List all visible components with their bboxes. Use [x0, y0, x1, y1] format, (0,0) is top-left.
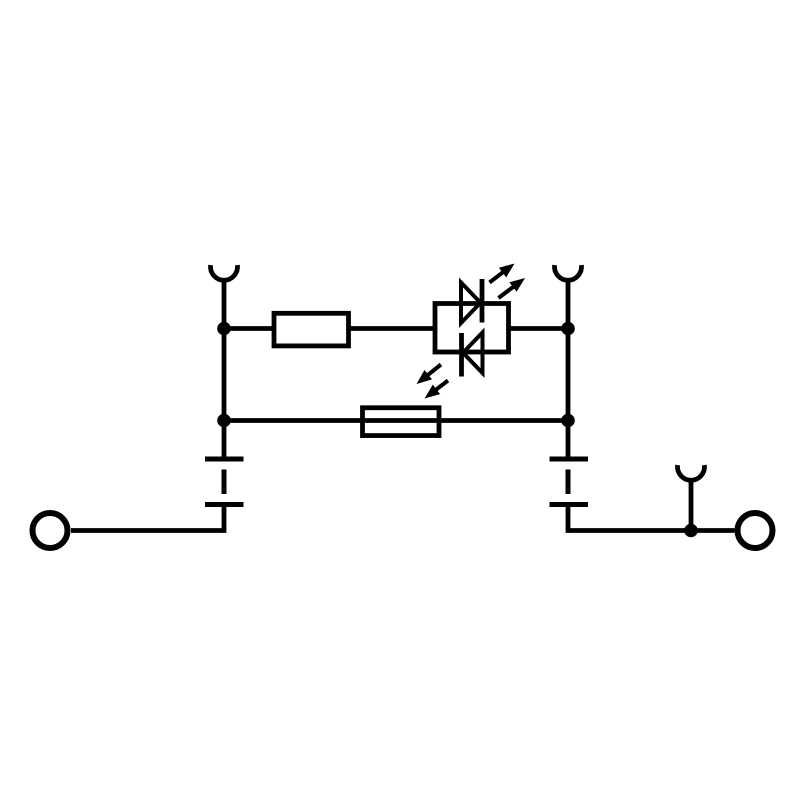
wire: S1 to left terminal [71, 505, 224, 531]
disconnect link S2 lower bar [550, 502, 589, 507]
wire: S2 to right terminal [568, 505, 735, 531]
test socket arc TP1 (top left) [211, 265, 238, 280]
test socket arc TP3 (lower right) [678, 465, 705, 480]
disconnect link S2 upper bar [550, 457, 589, 462]
disconnect link S1 upper bar [205, 457, 244, 462]
disconnect link S2 blade [566, 470, 571, 495]
wire: upper branch left segment [224, 326, 272, 331]
wire: TP3 stub [689, 479, 694, 531]
disconnect link S1 blade [222, 470, 227, 495]
emission arrow 4 (lower) [425, 381, 449, 399]
wire: LED box to right bus [509, 326, 569, 331]
junction node lower-right [561, 414, 575, 428]
test socket arc TP2 (top right) [555, 265, 582, 280]
junction node at TP3 [684, 524, 698, 538]
wire: left vertical bus [222, 279, 227, 459]
emission arrow 3 (lower) [417, 365, 442, 385]
wire: resistor to LED box [349, 326, 436, 331]
terminal circle X2 (right) [738, 513, 773, 548]
emission arrow 1 (upper) [490, 264, 515, 283]
terminal circle X1 (left) [33, 513, 68, 548]
LED D2 cathode bar [459, 333, 464, 377]
disconnect link S1 lower bar [205, 502, 244, 507]
junction node upper-left [217, 322, 231, 336]
LED D1 cathode bar [480, 279, 485, 323]
junction node lower-left [217, 414, 231, 428]
fuse F1 [363, 408, 440, 436]
LED block box U1 [435, 304, 509, 353]
resistor R1 [274, 313, 349, 346]
LED D2 (lower, anode right) triangle [463, 333, 483, 374]
wire: right vertical bus [566, 279, 571, 459]
wire: lower branch [224, 418, 568, 423]
junction node upper-right [561, 322, 575, 336]
emission arrow 2 (upper) [499, 278, 526, 298]
LED D1 (upper, anode left) triangle [461, 283, 481, 324]
